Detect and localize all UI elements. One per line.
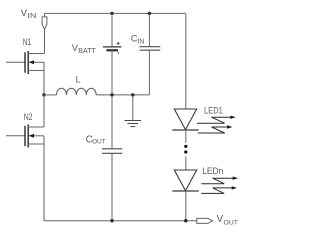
LED1 [172,106,235,143]
N1 channel bar [27,51,29,74]
LEDn light arrow lower [201,188,233,194]
N2 gate lead [6,135,25,137]
battery bottom wire [111,50,113,95]
N2 source stub [28,143,44,145]
connector VOUT (pentagon pointing right) [197,218,213,223]
svg-text:IN: IN [28,13,37,20]
node top rail / CIN [148,12,151,15]
battery minus tick [117,52,119,54]
N2 gate bar [24,126,26,146]
CIN plates [140,46,161,48]
LEDn cathode wire [185,191,187,221]
COUT plates [102,148,122,150]
N2 drain wire from node [43,95,45,127]
N1 gate bar [24,52,26,72]
capacitor COUT [86,95,123,221]
node bottom rail / LED string [184,219,187,222]
battery plus sign [117,42,120,45]
LED1 cathode bar [172,129,198,131]
LEDn cathode bar [172,190,198,192]
wire VIN to N1 drain [43,29,46,53]
inductor L [56,75,96,95]
battery top wire [111,13,113,47]
LEDn triangle [174,170,196,191]
LEDn light arrow upper [201,178,234,184]
N1 gate lead [6,61,25,63]
connector VIN (pentagon pointing down) [42,17,47,29]
battery short plate [107,49,119,51]
node SW (N1 source / N2 drain / L) [42,93,45,96]
label VIN [21,7,37,20]
wire VIN stub [44,13,46,17]
COUT top wire [111,95,113,149]
node bottom rail / COUT [110,219,113,222]
COUT bottom wire [111,153,113,220]
LEDn [172,166,238,221]
svg-text:BATT: BATT [78,48,96,55]
N2 source vertical to bottom rail [43,136,45,221]
wire bottom rail [44,220,197,222]
battery VBATT [72,12,122,95]
LED1 triangle [174,109,196,130]
N1 source/body vertical [43,62,45,95]
CIN top wire [148,13,150,46]
svg-text:IN: IN [137,38,144,45]
N1 body arrow [28,61,44,63]
LED1 light arrow upper [197,117,231,123]
svg-text:N2: N2 [24,112,33,123]
wire right vertical [185,13,187,109]
svg-text:LEDn: LEDn [202,166,223,177]
N2 drain stub [28,126,44,128]
svg-text:N1: N1 [23,37,31,47]
wire top rail [45,12,186,14]
transistor N2 [6,95,44,221]
svg-text:OUT: OUT [224,220,239,227]
N1 source stub [28,70,44,72]
N2 channel bar [27,125,29,148]
transistor N1 [6,37,44,95]
svg-text:OUT: OUT [92,139,105,146]
N2 body arrow [28,135,44,137]
wire mid rail right [96,94,149,96]
battery long plate [103,46,122,48]
CIN bottom wire [148,50,150,95]
wire dots to LEDn [185,156,187,170]
node top rail / battery [110,12,113,15]
svg-text:LED1: LED1 [204,106,223,117]
wire mid rail left [44,94,57,96]
capacitor CIN [131,12,161,95]
N1 drain stub [28,53,44,55]
ground [125,95,142,127]
LED1 light arrow lower [198,127,228,133]
label VOUT [217,214,238,227]
node mid rail / battery / COUT [110,93,113,96]
series dots [184,145,187,148]
svg-text:L: L [76,75,81,85]
node mid rail / ground [131,93,134,96]
LED1 cathode wire [185,130,187,143]
